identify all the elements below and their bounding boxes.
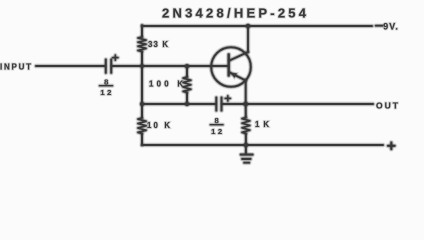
svg-text:9V.: 9V.	[383, 22, 398, 32]
svg-text:1 K: 1 K	[255, 120, 269, 129]
svg-text:33 K: 33 K	[148, 40, 168, 49]
svg-text:OUT: OUT	[376, 100, 399, 110]
svg-text:INPUT: INPUT	[0, 62, 31, 71]
